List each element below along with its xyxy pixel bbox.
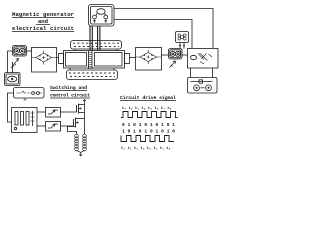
fan leads	[179, 43, 181, 49]
gear box left	[13, 46, 27, 57]
bottom coil hatch	[69, 72, 116, 74]
arrow under right circle	[105, 20, 108, 23]
wire driver1 to fet1	[61, 111, 77, 113]
wire gearbox right to motor	[182, 54, 188, 56]
wire driver2 to fet2	[61, 125, 74, 127]
bridge diamond	[36, 53, 52, 62]
svg-text:t₁ t₂ t₃ t₄ t₅ t₆ t₇ t₈: t₁ t₂ t₃ t₄ t₅ t₆ t₇ t₈	[121, 147, 171, 151]
top coil hatch	[73, 42, 120, 44]
bridge rectifier left	[32, 48, 57, 73]
wire top bus lower	[114, 20, 192, 49]
mosfet 1 source lead	[79, 112, 85, 114]
rotor small circle right	[104, 15, 108, 19]
center leg walls	[88, 51, 90, 70]
digits row 2	[122, 129, 175, 135]
coil 1	[75, 134, 79, 151]
mosfet 2 gate bar	[73, 119, 75, 126]
label: switching and control circuit	[50, 85, 90, 99]
mosfet 1 channel bar	[78, 104, 80, 114]
bridge 2 stubs	[147, 50, 150, 64]
gear box right	[169, 49, 183, 60]
right end cap	[125, 54, 130, 64]
left end cap	[59, 54, 64, 64]
gear circle right	[20, 48, 25, 53]
terminal circle right	[206, 85, 212, 91]
fan box	[176, 32, 189, 43]
svg-text:0 1 0 1 0 1 0 1 0 1: 0 1 0 1 0 1 0 1 0 1	[122, 122, 175, 128]
label: magnetic generator and electrical circuit	[12, 11, 74, 32]
svg-text:Magnetic generator: Magnetic generator	[12, 11, 74, 18]
ground arrow	[79, 152, 82, 156]
IC innards	[15, 112, 18, 126]
underline 2	[36, 24, 50, 26]
meter ellipse	[8, 76, 17, 82]
mosfet 2 source lead	[68, 127, 77, 135]
wire top bus upper	[114, 9, 213, 49]
shaft pair left	[89, 26, 91, 50]
wire gearbox to bridge	[27, 50, 32, 52]
stub top left	[74, 49, 76, 51]
underline 1	[12, 17, 74, 19]
drain bus	[84, 104, 86, 135]
bridge rectifier right	[136, 48, 162, 71]
stub bottom left	[69, 68, 71, 70]
mosfet 2 channel bar	[75, 118, 77, 128]
generator head inner box	[91, 7, 113, 25]
pointer arrow fet1	[83, 100, 86, 104]
oscillator box	[14, 88, 45, 99]
wire oscillator left down	[8, 93, 14, 122]
svg-text:control circuit: control circuit	[50, 93, 90, 99]
svg-text:Switching and: Switching and	[50, 85, 87, 91]
wire bridge to core	[57, 57, 59, 59]
rotor small circle left	[93, 15, 97, 19]
meter box	[5, 73, 21, 86]
waveform top labels	[122, 107, 172, 111]
terminal fuse line	[191, 81, 213, 83]
generator head outer box	[89, 5, 115, 27]
motor box	[188, 49, 219, 69]
bridge 2 diode marks	[143, 54, 153, 60]
terminal dash	[201, 87, 205, 89]
mosfet 1 drain lead	[79, 104, 85, 106]
mosfet 2 drain lead	[76, 118, 85, 120]
coil 2	[83, 134, 87, 151]
label: circuit drive signal	[120, 95, 176, 101]
bridge 2 diamond	[140, 53, 157, 62]
fan symbol	[178, 34, 186, 40]
svg-text:1 0 1 0 1 0 1 0 1 0: 1 0 1 0 1 0 1 0 1 0	[122, 129, 175, 135]
bridge 2 leads	[136, 56, 162, 58]
bridge diode marks	[39, 55, 49, 61]
svg-text:Circuit drive signal: Circuit drive signal	[120, 95, 176, 101]
link rotor right	[105, 14, 106, 16]
wire IC to driver1	[37, 111, 46, 113]
meter second lead	[12, 62, 14, 73]
driver box 2	[46, 122, 61, 132]
shaft pair right	[97, 26, 99, 50]
striker arrow left	[11, 59, 19, 69]
mosfet 1 gate bar	[76, 105, 78, 112]
gear circle left	[14, 48, 19, 53]
core main band	[64, 51, 125, 69]
terminal circle left	[194, 85, 200, 91]
fan lead arrows	[179, 45, 185, 46]
motor ellipse	[191, 55, 197, 59]
bridge leads	[32, 57, 57, 59]
square wave 1	[121, 112, 178, 118]
wire core to bridge right	[130, 57, 136, 59]
svg-text:and: and	[38, 18, 48, 25]
wire bridge right to gearbox right	[162, 54, 169, 56]
link rotor left	[96, 14, 97, 16]
bottom coil bar	[67, 70, 118, 80]
mosfet 1 body arrow	[79, 108, 83, 110]
underline 3	[12, 31, 74, 33]
oscillator ground stub	[23, 98, 26, 100]
digits row 1	[122, 122, 175, 128]
oscillator innards	[17, 91, 31, 93]
core right block	[95, 53, 123, 67]
svg-text:electrical circuit: electrical circuit	[12, 25, 74, 32]
center leg rungs	[89, 53, 93, 67]
driver box 1	[46, 108, 61, 118]
square wave 2	[121, 136, 174, 142]
motor innards	[198, 53, 208, 61]
rotor large ellipse	[97, 9, 105, 15]
stub bottom right	[113, 68, 115, 70]
control IC box	[12, 108, 38, 133]
terminal box	[188, 78, 218, 94]
top coil bar	[71, 41, 122, 50]
arrow under left circle	[93, 20, 96, 23]
coil bottom join	[77, 151, 85, 153]
striker arrow right	[170, 61, 176, 68]
core left block	[66, 53, 87, 67]
wire gearbox left down	[8, 51, 13, 73]
motor leads down	[190, 68, 192, 78]
stub top right	[116, 49, 118, 51]
bridge stubs	[42, 51, 45, 65]
wire IC to driver2	[37, 125, 46, 127]
mosfet 2 body arrow	[76, 122, 80, 124]
svg-text:t₁ t₂ t₃ t₄ t₅ t₆ t₇ t₈: t₁ t₂ t₃ t₄ t₅ t₆ t₇ t₈	[122, 107, 172, 111]
waveform bottom labels	[121, 147, 171, 151]
